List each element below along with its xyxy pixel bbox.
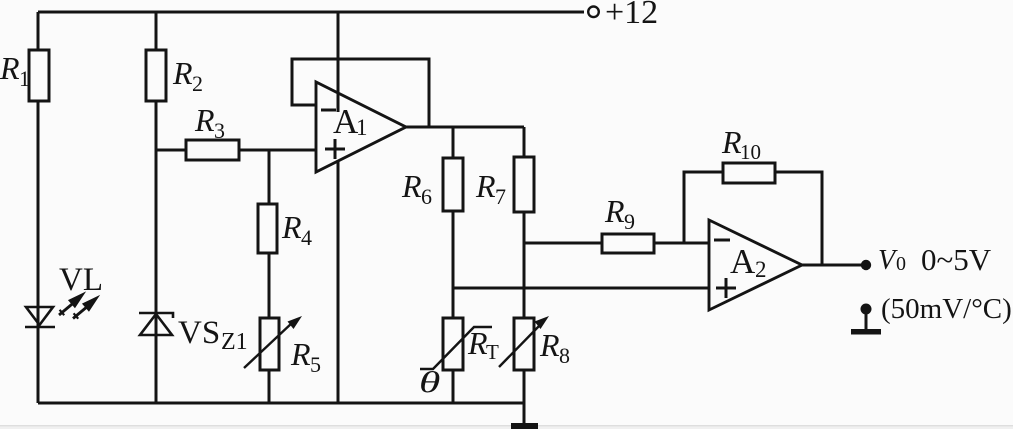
svg-text:V: V (878, 245, 898, 276)
svg-text:R: R (0, 50, 20, 86)
svg-text:T: T (486, 340, 499, 364)
svg-text:R: R (281, 209, 302, 245)
svg-text:9: 9 (624, 209, 635, 234)
svg-text:10: 10 (740, 140, 761, 164)
svg-text:6: 6 (421, 184, 432, 209)
svg-text:2: 2 (192, 71, 203, 96)
svg-text:R: R (467, 325, 488, 361)
svg-text:R: R (172, 55, 193, 91)
svg-text:1: 1 (19, 66, 30, 91)
svg-text:2: 2 (755, 257, 767, 282)
svg-text:VS: VS (178, 315, 220, 351)
svg-text:R: R (401, 168, 422, 204)
svg-text:θ: θ (419, 366, 440, 399)
svg-text:(50mV/°C): (50mV/°C) (881, 293, 1012, 325)
svg-text:R: R (194, 102, 215, 138)
svg-text:R: R (721, 124, 742, 160)
svg-text:R: R (604, 193, 625, 229)
svg-text:R: R (475, 168, 496, 204)
svg-text:0~5V: 0~5V (921, 242, 992, 277)
svg-text:3: 3 (214, 118, 225, 143)
svg-text:+12: +12 (605, 0, 658, 31)
svg-text:VL: VL (59, 262, 103, 298)
svg-text:Z1: Z1 (221, 329, 248, 355)
svg-text:4: 4 (301, 225, 312, 250)
svg-text:R: R (539, 327, 560, 363)
svg-text:8: 8 (559, 343, 570, 368)
svg-text:0: 0 (896, 253, 906, 275)
svg-text:7: 7 (495, 184, 506, 209)
svg-text:5: 5 (310, 352, 321, 377)
svg-text:A: A (730, 242, 756, 281)
svg-text:R: R (290, 336, 311, 372)
svg-text:1: 1 (356, 115, 368, 140)
